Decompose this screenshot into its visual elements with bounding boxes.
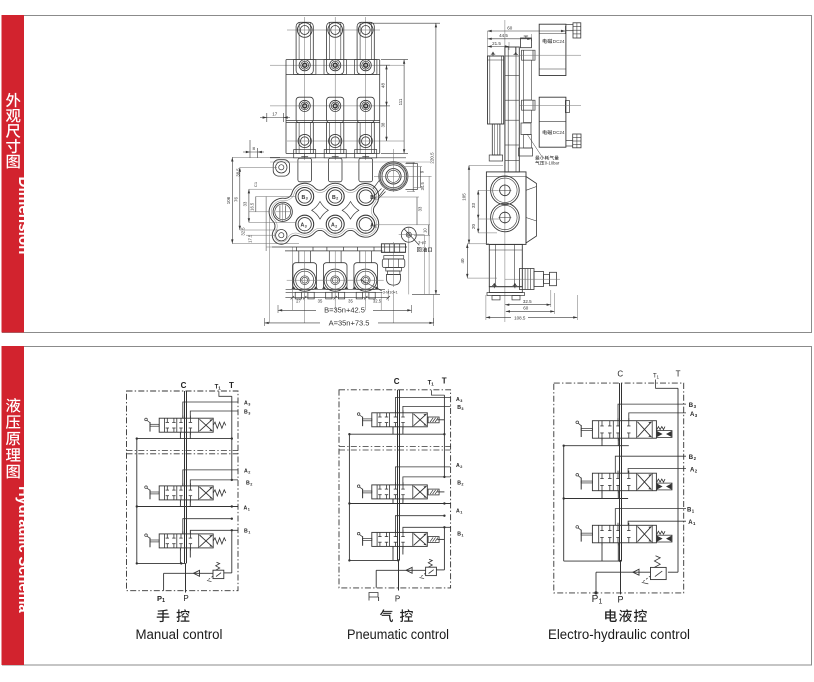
- svg-text:34.5: 34.5: [420, 182, 425, 191]
- svg-text:Hydraulic Schema: Hydraulic Schema: [15, 486, 32, 613]
- caption: manual control: [136, 627, 223, 642]
- svg-text:8: 8: [253, 146, 256, 151]
- spool bore circle lower: [491, 203, 520, 232]
- dim 48 right: [380, 65, 390, 106]
- bottom flange and feet: [487, 283, 525, 300]
- junction dots below valve 1: [136, 437, 233, 439]
- wire carryover to valve 3: [183, 519, 232, 534]
- svg-text:32.5: 32.5: [241, 227, 246, 236]
- svg-text:38: 38: [380, 122, 385, 127]
- manual valve V2: [145, 483, 226, 502]
- svg-text:DC24: DC24: [553, 130, 565, 135]
- mounting ear bottom-left: [276, 230, 287, 241]
- section 1 frame: [3, 16, 812, 333]
- svg-text:48: 48: [380, 83, 385, 89]
- relief valve: [420, 559, 437, 578]
- svg-text:33: 33: [243, 201, 248, 206]
- wire relief to rail: [224, 572, 232, 574]
- valve 3 bottom port stubs: [180, 548, 190, 563]
- valve body outline (plan): [286, 60, 380, 154]
- svg-text:76: 76: [234, 197, 239, 203]
- junction dot P1 on border: [594, 591, 597, 594]
- dim 220.5 far right: [368, 23, 440, 294]
- pilot column with cap: [519, 36, 536, 156]
- wire port B1: [403, 527, 451, 532]
- wire C channel double line: [398, 390, 400, 561]
- svg-text:16.5: 16.5: [250, 202, 255, 211]
- pneumatic valve V2: [357, 482, 439, 501]
- svg-text:32.5: 32.5: [373, 298, 382, 303]
- svg-text:2: 2: [248, 470, 250, 474]
- section separator dash-dot lines: [127, 451, 239, 454]
- svg-text:106: 106: [226, 196, 231, 204]
- T return port top right: [374, 149, 432, 200]
- inlet port P: [273, 202, 292, 221]
- svg-text:111: 111: [398, 98, 403, 105]
- port circles row B with labels B3 B2 B1: [296, 188, 377, 206]
- stud circles row 3: [299, 100, 371, 111]
- svg-text:1: 1: [599, 599, 603, 606]
- dim 17 top-left: [260, 112, 290, 123]
- relief valve (electro-hydraulic): [642, 556, 666, 584]
- svg-text:1: 1: [692, 509, 695, 514]
- relief valve: [207, 562, 224, 581]
- body lower band and stems: [272, 247, 407, 263]
- wire port B1: [190, 530, 238, 534]
- manual valve V1: [145, 416, 226, 435]
- electro-hydraulic enclosure (dash-dot border): [554, 383, 684, 593]
- wire T jog: [219, 391, 232, 396]
- svg-text:T: T: [442, 377, 447, 386]
- side view centerline: [504, 20, 506, 322]
- svg-text:1: 1: [461, 534, 463, 538]
- valve 2 bottom port stubs: [393, 499, 403, 503]
- section 1 red sidebar: [2, 15, 25, 333]
- solenoid block 1 with DC24 label: [519, 23, 581, 76]
- spool cap bonnets at top: [270, 153, 430, 181]
- svg-text:40: 40: [460, 258, 465, 264]
- solenoid block 2 with DC24 label: [519, 97, 581, 148]
- svg-text:1: 1: [248, 507, 250, 511]
- svg-text:A=35n+73.5: A=35n+73.5: [329, 318, 370, 327]
- port circles row A with labels A3 A2 A1: [296, 215, 377, 233]
- svg-text:3: 3: [694, 404, 697, 409]
- wire port B3: [618, 404, 686, 421]
- air quality note: [527, 134, 560, 166]
- svg-text:27: 27: [296, 298, 301, 303]
- svg-text:3: 3: [306, 197, 308, 201]
- svg-text:1: 1: [431, 382, 434, 387]
- caption CJK: 气 控: [380, 609, 413, 622]
- svg-text:2: 2: [695, 468, 698, 473]
- left dimension lines: [226, 157, 299, 251]
- top dimension 60: [488, 25, 566, 56]
- valve body scalloped outline: [269, 183, 379, 244]
- svg-text:35: 35: [318, 298, 323, 303]
- wire relief drain with check arrow: [596, 569, 651, 593]
- wire left rail: [563, 446, 565, 561]
- drain hole with slash: [399, 227, 427, 245]
- valve 3 bottom port stubs: [393, 547, 403, 561]
- wire P line to bottom: [185, 563, 187, 592]
- wire port B3: [403, 406, 451, 412]
- svg-text:T: T: [676, 370, 681, 379]
- wire port B2: [190, 480, 238, 486]
- svg-text:C: C: [617, 370, 623, 379]
- wire port B2: [615, 456, 686, 473]
- pneumatic valve V1: [357, 410, 439, 429]
- svg-text:2: 2: [335, 224, 337, 228]
- main body block side: [486, 172, 526, 245]
- svg-text:C1: C1: [253, 181, 258, 187]
- wire port A3: [629, 413, 686, 421]
- svg-text:20: 20: [471, 224, 476, 230]
- wire relief to T rail: [668, 571, 678, 573]
- wire bottom collector: [564, 554, 621, 562]
- sidebar2 CJK chars: [6, 398, 21, 478]
- svg-text:3-M10×1: 3-M10×1: [383, 290, 398, 294]
- svg-text:3: 3: [248, 412, 250, 416]
- bottom tick dimension row 27 35 35 32.5: [285, 289, 390, 303]
- wire T jog: [656, 380, 678, 389]
- sidebar1 CJK chars: [6, 93, 21, 169]
- wire below valve 2: [564, 498, 628, 500]
- electro-hydraulic valve V1: [576, 418, 672, 441]
- wire right rail T: [677, 388, 679, 572]
- port labels A3 B3 A2 B2 A1 B1: [244, 401, 253, 535]
- caption: pneumatic control: [347, 627, 449, 642]
- port labels B3 A3 B2 A2 B1 A1: [687, 403, 698, 526]
- wire T jog: [432, 390, 445, 395]
- valve 1 bottom port stubs: [180, 432, 190, 438]
- left dimension 33 and 20: [471, 190, 500, 233]
- svg-text:C: C: [394, 377, 400, 386]
- svg-text:1: 1: [460, 510, 462, 514]
- svg-text:Manual control: Manual control: [136, 627, 223, 642]
- left dimension 105: [461, 166, 503, 244]
- svg-text:T: T: [229, 381, 234, 390]
- svg-text:C: C: [181, 381, 187, 390]
- valve 2 bottom port stubs: [602, 491, 618, 499]
- strip feet at top-view bottom: [294, 150, 377, 158]
- pneumatic valve V3: [357, 530, 439, 549]
- lower block side: [489, 244, 522, 286]
- svg-text:3: 3: [460, 399, 462, 403]
- svg-text:3: 3: [248, 403, 250, 407]
- svg-text:P: P: [183, 594, 188, 603]
- wire relief drain with check arrow: [376, 567, 425, 587]
- stud circles row 2: [299, 60, 371, 71]
- wire right rail T: [231, 396, 233, 480]
- svg-text:Dimension: Dimension: [15, 177, 32, 255]
- svg-text:1: 1: [248, 531, 250, 535]
- port labels A3 B3 A2 B2 A1 B1: [456, 397, 464, 538]
- caption CJK: 电液控: [605, 609, 647, 622]
- electro-hydraulic valve V2: [576, 471, 672, 494]
- wire right rail lower: [231, 530, 233, 573]
- svg-text:B=35n+42.5: B=35n+42.5: [324, 306, 365, 315]
- wire C channel double line: [620, 383, 622, 561]
- svg-text:DC24: DC24: [553, 39, 565, 44]
- svg-text:220.5: 220.5: [429, 152, 434, 164]
- manual valve V3: [145, 531, 226, 550]
- svg-text:33: 33: [417, 206, 422, 211]
- svg-text:P: P: [617, 595, 623, 605]
- svg-text:0-10bar: 0-10bar: [545, 161, 560, 166]
- svg-text:33: 33: [471, 203, 476, 209]
- wire below valve 2 / A1 line: [137, 506, 238, 508]
- wire left rail P1: [136, 439, 138, 564]
- left dimension 40: [460, 244, 497, 278]
- caption CJK: 手 控: [157, 609, 190, 622]
- wire relief drain with check arrow: [164, 570, 213, 590]
- wire port A3: [395, 398, 450, 413]
- wire port B3: [190, 411, 238, 418]
- wire below valve 1: [137, 438, 232, 440]
- svg-text:21.5: 21.5: [492, 41, 501, 46]
- T port lobe: [373, 162, 408, 197]
- svg-text:105: 105: [461, 193, 466, 201]
- wire port A1: [628, 521, 686, 525]
- top dimension 44.5: [488, 33, 532, 41]
- right small dimensions 9 34.5 33 10: [375, 163, 430, 236]
- valve 2 bottom port stubs: [180, 500, 190, 506]
- dimension B=35n+42.5: [278, 305, 412, 315]
- relief valve assembly side: [505, 269, 560, 290]
- concave diamond voids: [312, 202, 359, 220]
- label breather port: [417, 247, 432, 252]
- wire below valve 1: [349, 433, 444, 435]
- svg-text:3: 3: [305, 224, 307, 228]
- wire bottom collector: [349, 559, 398, 561]
- wire relief to rail: [436, 569, 444, 571]
- svg-text:2: 2: [250, 483, 252, 487]
- relief fitting stack right: [381, 242, 405, 287]
- top view centerlines: [270, 17, 404, 160]
- bottom dimension 32.5: [505, 290, 551, 307]
- air supply flag P1: [369, 593, 379, 602]
- spool bore circle upper: [491, 176, 520, 205]
- wire C channel double line: [185, 391, 187, 563]
- section 2 frame: [3, 347, 812, 666]
- wire below valve 2 / A1 line: [349, 503, 450, 505]
- wire port A2: [395, 467, 450, 485]
- section 2 red sidebar: [2, 346, 25, 665]
- svg-text:2: 2: [461, 483, 463, 487]
- wire P line to bottom: [620, 561, 622, 594]
- svg-text:1: 1: [693, 521, 696, 526]
- svg-text:1: 1: [218, 386, 221, 391]
- svg-text:Electro-hydraulic control: Electro-hydraulic control: [548, 627, 690, 642]
- handle bracket trapezoid: [526, 177, 537, 244]
- svg-text:P: P: [395, 595, 400, 604]
- caption: electro-hydraulic control: [548, 627, 690, 642]
- extension verticals to dimension lines: [270, 176, 434, 323]
- svg-text:60: 60: [507, 25, 513, 30]
- svg-text:2: 2: [460, 465, 462, 469]
- wire P line to bottom: [398, 560, 400, 590]
- svg-text:35: 35: [348, 298, 353, 303]
- manual control enclosure (dash-dot border): [127, 391, 239, 591]
- wire port A2: [183, 470, 238, 486]
- bolt circles row 4: [298, 134, 372, 147]
- valve 3 bottom port stubs: [602, 543, 618, 554]
- wire port A3: [183, 402, 238, 418]
- pneumatic pilot supply lines: [437, 420, 444, 540]
- svg-text:3-φ2: 3-φ2: [418, 241, 426, 245]
- svg-text:3: 3: [695, 413, 698, 418]
- air cylinder: [488, 52, 504, 162]
- svg-text:1: 1: [657, 375, 660, 380]
- svg-text:38.5: 38.5: [236, 168, 241, 177]
- valve 1 bottom port stubs: [393, 427, 403, 434]
- wire port A2: [628, 469, 686, 474]
- electro-hydraulic valve V3: [576, 523, 672, 546]
- wire carryover to valve 3: [395, 516, 444, 533]
- bottom dimension 108.5: [486, 295, 578, 320]
- svg-text:108.5: 108.5: [514, 315, 526, 320]
- svg-text:2: 2: [694, 456, 697, 461]
- top dimension 21.5: [488, 41, 510, 50]
- dim 38 right: [380, 106, 387, 141]
- valve 1 bottom port stubs: [602, 438, 618, 446]
- spool tower: [505, 47, 519, 172]
- svg-text:2: 2: [336, 197, 338, 201]
- bottom dimension 60: [506, 293, 555, 314]
- svg-text:60: 60: [523, 306, 529, 311]
- svg-text:32.5: 32.5: [523, 299, 532, 304]
- wire right rail lower: [443, 527, 445, 570]
- section strips (3 columns): [294, 22, 377, 153]
- top bolt circles row 1: [297, 23, 373, 38]
- svg-text:17: 17: [272, 112, 278, 117]
- wire port B2: [403, 477, 451, 485]
- svg-text:10: 10: [423, 228, 428, 233]
- svg-text:3: 3: [461, 407, 463, 411]
- svg-text:44.5: 44.5: [499, 33, 508, 38]
- pneumatic control enclosure (dash-dot border): [339, 390, 451, 588]
- wire right rail T: [443, 395, 445, 477]
- section separator dash-dot lines: [339, 446, 451, 450]
- wire left rail P1: [348, 434, 350, 560]
- wire port B1: [615, 509, 686, 526]
- wire bottom collector: [137, 562, 186, 564]
- leader 3-M10: [360, 280, 398, 295]
- dim 111 right: [381, 60, 408, 154]
- mounting ear top-left: [273, 160, 289, 176]
- knob housings and knobs: [286, 251, 385, 299]
- wire below valve 1: [564, 445, 629, 447]
- svg-text:Pneumatic control: Pneumatic control: [347, 627, 449, 642]
- svg-text:1: 1: [162, 598, 165, 604]
- right mounting tab: [406, 164, 418, 190]
- dimension A=35n+73.5: [265, 318, 434, 327]
- dim 8 left: [243, 140, 264, 158]
- front body top edge: [270, 157, 406, 159]
